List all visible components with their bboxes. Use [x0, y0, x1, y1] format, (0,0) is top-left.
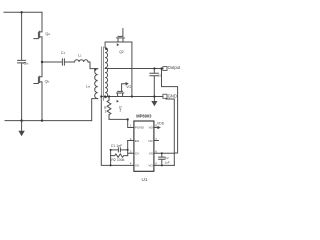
svg-text:Q2: Q2: [119, 50, 124, 54]
svg-text:U1: U1: [142, 177, 148, 182]
svg-text:GND: GND: [168, 93, 177, 98]
svg-text:1: 1: [105, 109, 107, 113]
svg-text:R2 100k: R2 100k: [111, 158, 124, 162]
svg-text:L1: L1: [78, 54, 82, 58]
svg-text:PGND: PGND: [135, 126, 145, 130]
svg-text:VS: VS: [149, 152, 153, 156]
svg-text:EN: EN: [135, 139, 139, 143]
svg-text:5: 5: [155, 161, 157, 165]
svg-text:Qb: Qb: [45, 80, 50, 84]
svg-text:C1 1nF: C1 1nF: [111, 144, 122, 148]
svg-text:C1: C1: [61, 51, 66, 55]
svg-text:VDD: VDD: [157, 121, 165, 125]
svg-text:Qa: Qa: [45, 32, 50, 36]
svg-text:1uF: 1uF: [165, 161, 170, 165]
svg-text:NC: NC: [148, 139, 153, 143]
svg-text:4: 4: [130, 161, 132, 165]
svg-text:CV: CV: [135, 152, 140, 156]
svg-text:6: 6: [155, 149, 157, 153]
svg-text:VG: VG: [148, 164, 153, 168]
svg-text:VS: VS: [135, 164, 139, 168]
svg-text:Cin: Cin: [23, 62, 28, 66]
svg-text:1: 1: [119, 109, 121, 113]
svg-text:MP6903: MP6903: [136, 114, 152, 119]
svg-text:3: 3: [130, 149, 132, 153]
svg-text:VG: VG: [126, 85, 131, 89]
svg-text:Output: Output: [168, 65, 181, 70]
svg-text:Lm: Lm: [86, 85, 91, 89]
svg-text:C2: C2: [165, 156, 169, 160]
svg-text:VD: VD: [149, 126, 154, 130]
svg-text:1: 1: [130, 124, 132, 128]
